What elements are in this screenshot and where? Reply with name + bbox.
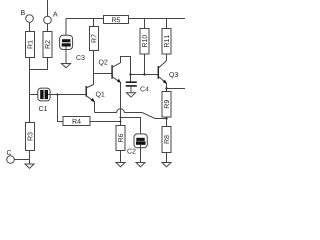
ground under R3	[25, 164, 34, 168]
wire R10 top	[144, 19, 146, 29]
junction dot C1-R4	[56, 93, 58, 95]
wire B to R1	[29, 22, 31, 31]
node C	[7, 150, 15, 163]
capacitor C3	[60, 35, 85, 60]
resistor R5	[104, 16, 129, 24]
wire left rail down to R3	[29, 70, 31, 123]
resistor R11	[162, 29, 171, 55]
transistor Q3	[158, 54, 178, 92]
ground under C3	[62, 64, 71, 68]
wire R9 to R8	[166, 117, 168, 127]
resistor R8	[162, 127, 171, 153]
ground under C4	[127, 93, 136, 97]
ground under R8	[162, 163, 171, 167]
node B	[21, 10, 33, 22]
wire C to R3	[14, 159, 29, 161]
wire A to R2	[47, 24, 49, 32]
wire C2 tap	[121, 118, 141, 138]
wire R8 to ground	[166, 153, 168, 163]
resistor R1	[26, 32, 35, 58]
resistor R3	[26, 123, 35, 151]
wire R1-R2 join	[30, 58, 48, 70]
junction dot C4	[129, 73, 131, 75]
wire drop to R4	[58, 95, 64, 122]
wire R7 top to rail	[93, 19, 95, 27]
wire C1 to Q1 base	[48, 94, 86, 96]
wire C4 node to Q3 base	[131, 74, 159, 76]
wire rail to C1	[30, 94, 41, 96]
junction dot feedback-R9	[165, 117, 167, 119]
capacitor C2	[127, 134, 147, 154]
ground under C2	[136, 163, 145, 167]
capacitor C4	[126, 82, 149, 93]
wire C2 to ground	[140, 145, 142, 163]
wire Q1 emitter feedback	[95, 109, 167, 119]
wire R4 to vertical	[90, 121, 121, 123]
wire R6 to ground	[120, 151, 122, 163]
resistor R7	[90, 27, 99, 51]
node A	[44, 0, 58, 24]
resistor R4	[63, 117, 90, 126]
resistor R9	[162, 92, 171, 118]
ground under R6	[116, 163, 125, 167]
transistor Q1	[86, 51, 104, 113]
transistor Q2	[99, 57, 131, 126]
wire R11 top	[166, 19, 168, 29]
resistor R2	[43, 32, 52, 58]
wire C3 to ground	[65, 47, 67, 64]
wire Q2 base	[94, 73, 113, 75]
junction dots on vertical	[120, 117, 122, 119]
resistor R10	[140, 29, 149, 55]
top rail	[66, 18, 104, 20]
resistor R6	[116, 126, 125, 151]
output wire right edge	[167, 88, 186, 90]
wire R3 to ground	[29, 151, 31, 165]
junction dot R10	[143, 73, 145, 75]
capacitor C1	[38, 88, 50, 111]
wire R10 bottom	[144, 54, 146, 75]
junction dot output	[165, 87, 167, 89]
wire rail to C3	[65, 19, 67, 40]
